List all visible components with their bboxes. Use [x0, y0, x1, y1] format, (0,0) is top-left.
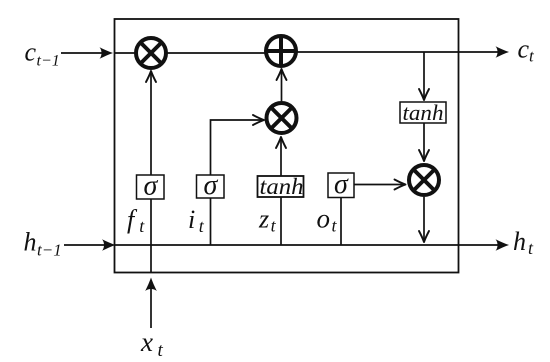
sigma box o (output gate) [328, 169, 354, 200]
wire sigma i elbow to multiply 2 with arrow [211, 115, 265, 175]
wire tanh z up to multiply 2 with arrow [276, 137, 286, 176]
tanh box z (cell input activation) [258, 174, 304, 199]
wire h line across box to h_t output with arrow [115, 239, 510, 251]
wire c line: multiply 1 to add gate [166, 52, 266, 54]
wire c_t-1 arrow into box [61, 47, 113, 59]
wire multiply 2 up to add gate with arrow [277, 69, 287, 101]
cell boundary box [115, 19, 459, 273]
wire z branch down from tanh z to h line [280, 197, 282, 245]
svg-text:σ: σ [144, 171, 159, 202]
wire i branch down from sigma i to h line [210, 198, 212, 245]
svg-text:tanh: tanh [260, 174, 304, 199]
multiply gate (output) circle-X [409, 165, 439, 195]
sigma box i (input gate) [197, 170, 225, 201]
add gate circle-plus [265, 35, 298, 68]
wire sigma o down to h line [340, 198, 342, 246]
multiply gate 2 (input) circle-X [267, 103, 297, 133]
wire tanh box down to multiply 3 [419, 123, 429, 161]
multiply gate (forget) circle-X [136, 38, 166, 68]
wire c line: box edge to multiply 1 [115, 52, 137, 54]
svg-text:σ: σ [334, 169, 349, 200]
sigma box f (forget gate) [137, 171, 165, 202]
wire f/x branch: sigma f down through h line to box bottom [150, 199, 152, 273]
wire sigma o right to multiply 3 with arrow [354, 180, 406, 190]
svg-text:tanh: tanh [403, 100, 444, 125]
tanh box (output activation) [400, 100, 446, 125]
wire h_t-1 arrow into box [64, 239, 116, 251]
wire c line: add gate to c_t output with arrow [298, 46, 510, 58]
wire multiply 3 down to h line with arrow [419, 197, 429, 242]
wire branch down from c line to tanh box [419, 52, 429, 100]
wire sigma f up to multiply 1 with arrow [146, 71, 156, 175]
wire x_t arrow from below into box [145, 278, 157, 329]
